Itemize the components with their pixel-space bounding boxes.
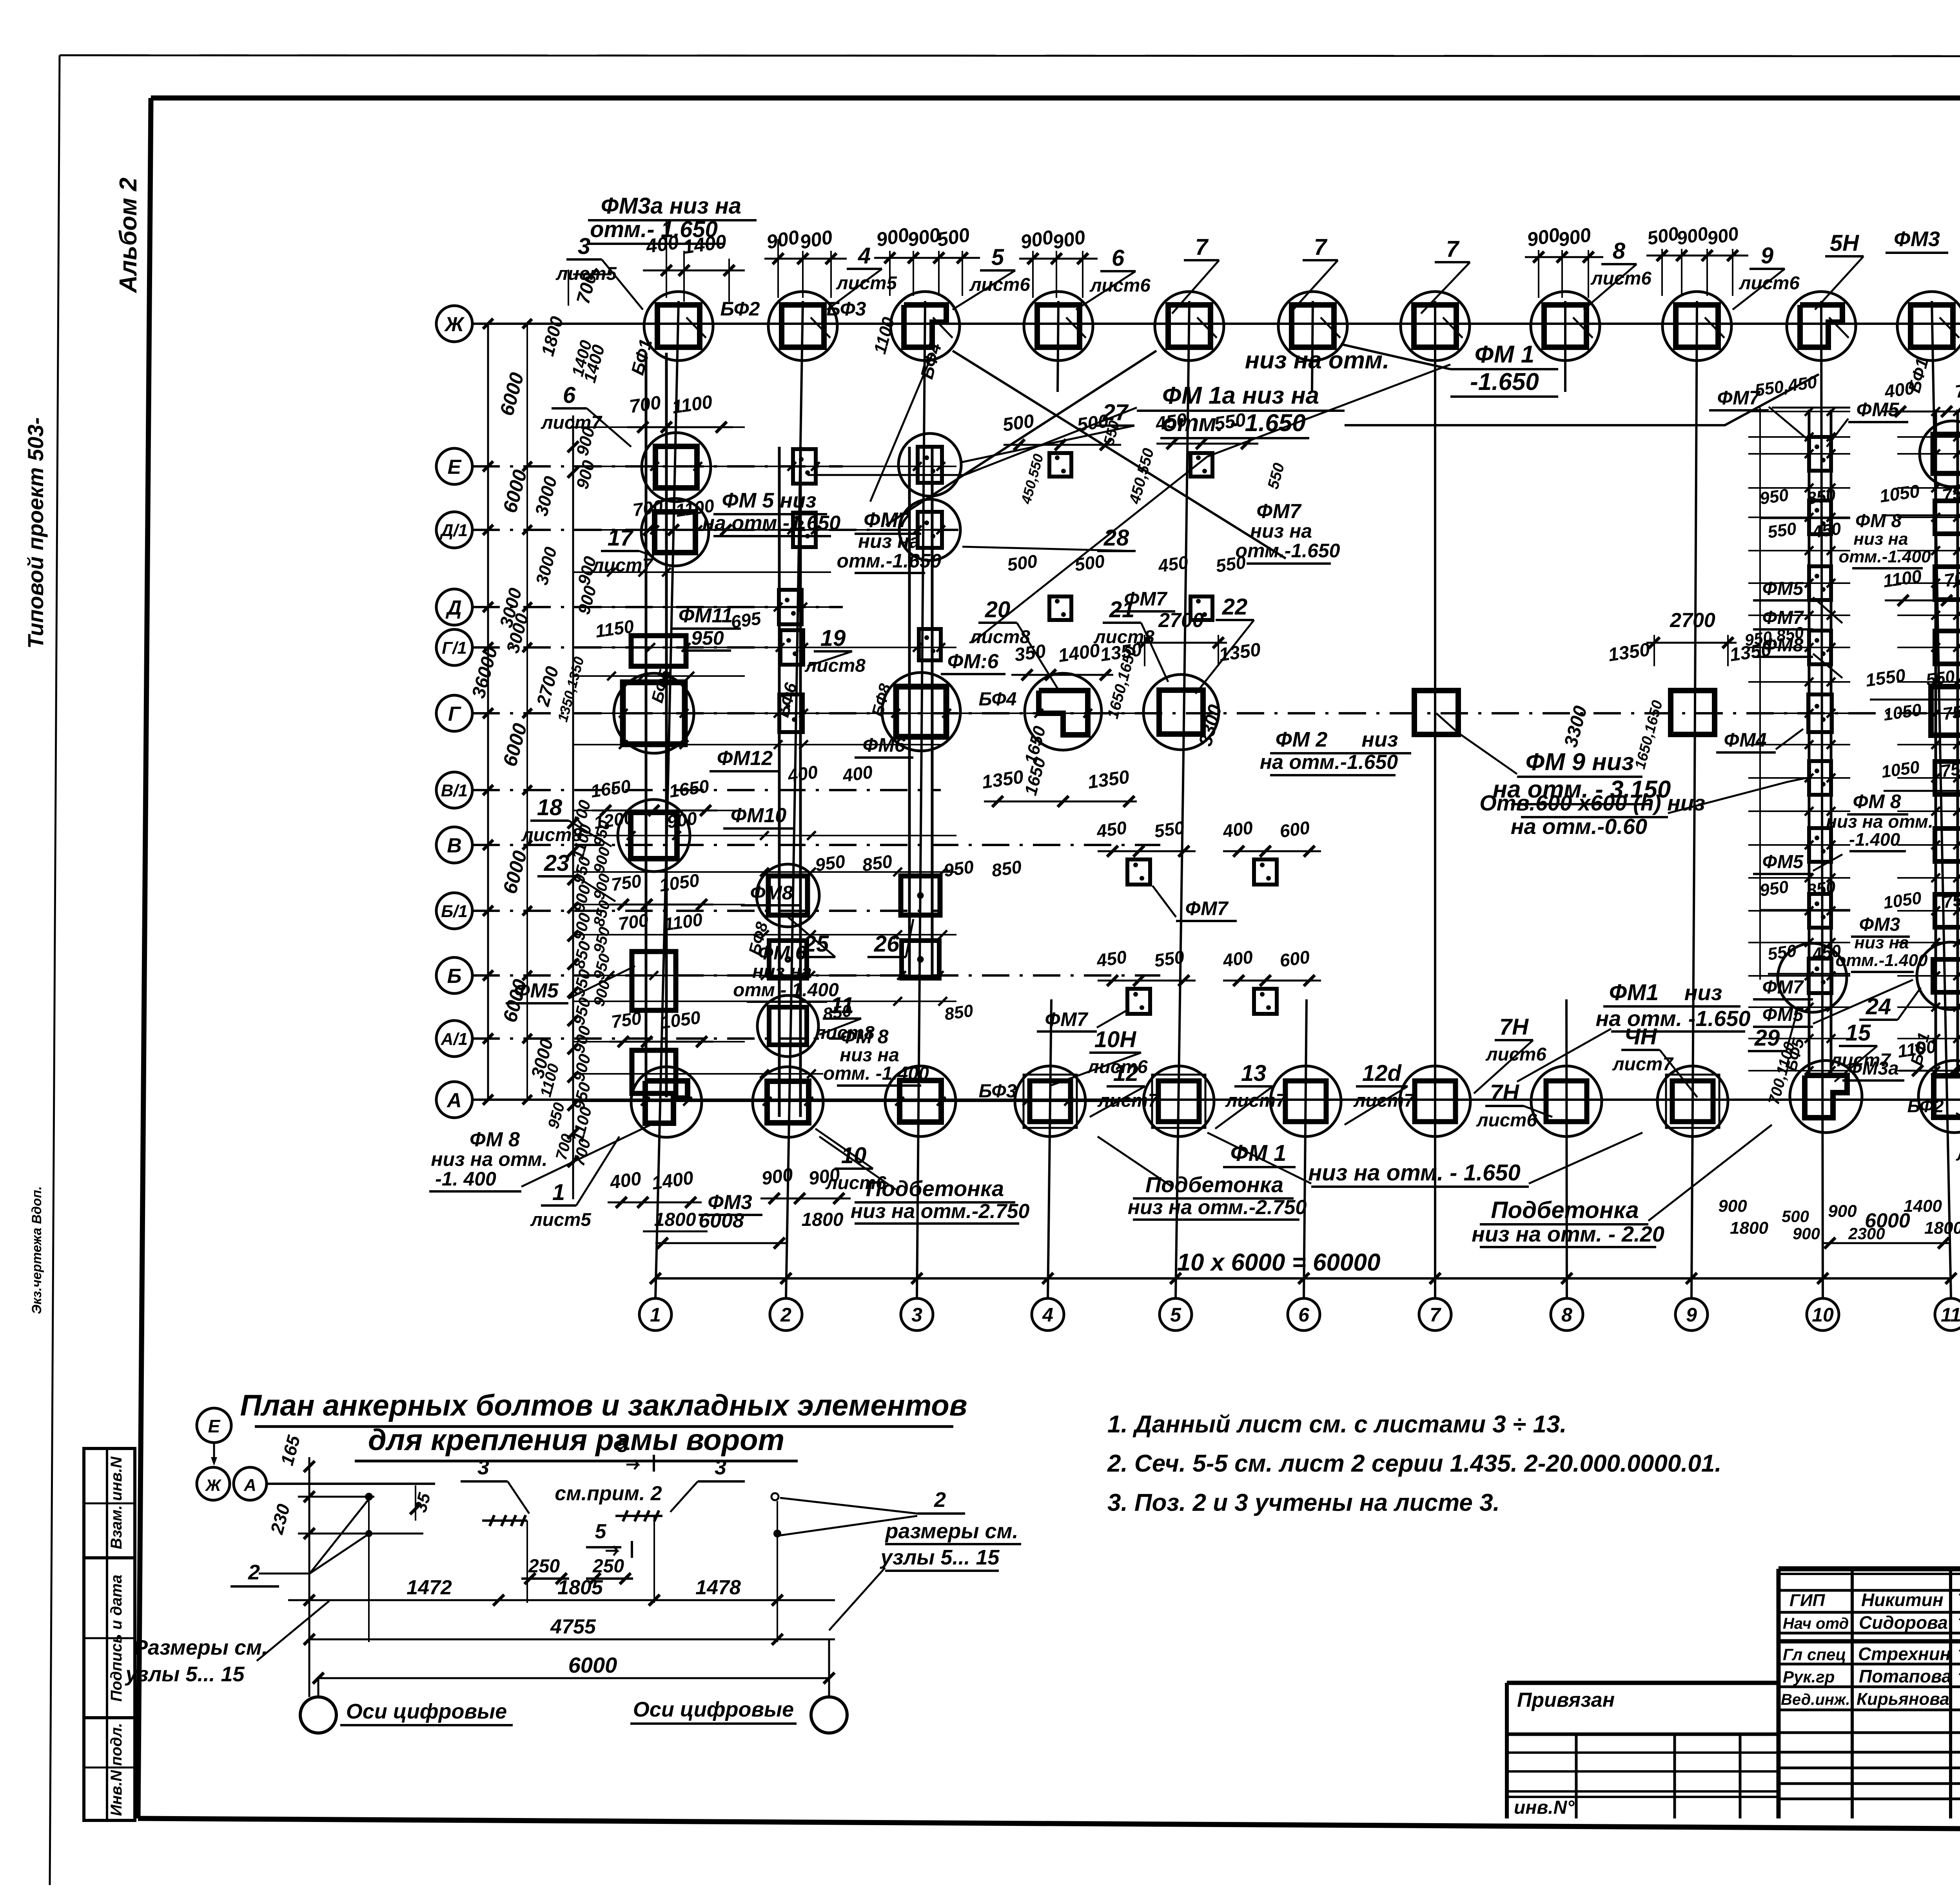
footing Г1-3 bolts: [919, 629, 941, 660]
axis column 8: [1551, 301, 1583, 1331]
svg-text:Альбом 2: Альбом 2: [115, 178, 142, 294]
footing Д1-3: [899, 499, 960, 560]
label ФМ12: [710, 747, 780, 771]
svg-text:Рук.гр: Рук.гр: [1783, 1668, 1835, 1686]
svg-text:узлы 5... 15: узлы 5... 15: [879, 1546, 1000, 1569]
svg-text:3. Поз. 2 и 3 учтены на лис: 3. Поз. 2 и 3 учтены на листе 3.: [1107, 1489, 1500, 1516]
svg-text:инв.N°: инв.N°: [1514, 1797, 1575, 1818]
svg-text:БФ2: БФ2: [720, 298, 760, 320]
left margin lower nums: [537, 1062, 576, 1162]
detail sec 5 top: [606, 1434, 654, 1472]
stamp text Взам инв №: [108, 1456, 125, 1549]
dim 1650 1650 rot2: [1021, 724, 1050, 798]
svg-text:Потапова: Потапова: [1859, 1666, 1952, 1686]
footing c11 24: [1917, 942, 1960, 1010]
footing mid-5 bolts: [1127, 859, 1150, 885]
svg-text:1: 1: [650, 1304, 661, 1326]
flag 2 лист5: [1956, 1113, 1960, 1165]
svg-text:550: 550: [1153, 817, 1186, 841]
svg-text:ФМ3: ФМ3: [1894, 227, 1940, 251]
leader top col 6: [1321, 317, 1340, 338]
svg-text:4: 4: [1042, 1304, 1053, 1326]
detail dim 6000: [313, 1653, 835, 1684]
svg-text:низ на отм.: низ на отм.: [431, 1148, 547, 1170]
dim 16 лист7: [541, 383, 631, 447]
footing Г-1: [614, 673, 694, 753]
svg-text:1472: 1472: [407, 1576, 452, 1599]
dim 1050 750 r2: [1882, 700, 1960, 724]
dim 750 1050 В: [610, 870, 713, 910]
label 7Н лист6 a: [1474, 1014, 1546, 1093]
dim 3300 rot mid: [1195, 702, 1226, 748]
svg-text:см.прим. 2: см.прим. 2: [555, 1482, 662, 1505]
leader top col 8: [1573, 317, 1593, 338]
flag 27: [960, 400, 1134, 462]
svg-text:450: 450: [1095, 946, 1128, 971]
svg-text:Подпись и дата: Подпись и дата: [108, 1575, 125, 1702]
dim 750 1050 Б2: [610, 1007, 713, 1047]
svg-text:9: 9: [1761, 243, 1773, 268]
label ФМ2 низ: [1260, 728, 1411, 775]
dim 2700 right: [1646, 609, 1737, 666]
footing А-3: [885, 1066, 956, 1137]
axis column 9: [1675, 301, 1708, 1331]
footing c11 y2156: [1935, 828, 1960, 861]
svg-text:700: 700: [632, 496, 664, 520]
detail flag 3 a: [461, 1456, 529, 1514]
label ФМ1а низ на: [1137, 382, 1345, 411]
svg-text:1805: 1805: [557, 1576, 603, 1599]
label ФМ3 низ r: [1836, 914, 1928, 972]
flag 9 лист6: [1733, 243, 1800, 310]
svg-text:лист8: лист8: [804, 655, 866, 676]
right cluster dim ladder: [1748, 407, 1960, 1075]
detail verticals: [369, 1497, 777, 1642]
svg-text:Подбетонка: Подбетонка: [1491, 1197, 1639, 1223]
flag 29: [1748, 1006, 1798, 1051]
dim 3300 rot right: [1561, 703, 1592, 749]
dim 700 1100 rot bl: [1765, 1040, 1798, 1107]
svg-text:7Н: 7Н: [1490, 1080, 1519, 1106]
label БФ4 rot col3: [916, 341, 945, 381]
label БФ1 rot col1: [627, 337, 656, 377]
note 2: [1107, 1450, 1722, 1477]
dim bott right nums: [1718, 1196, 1960, 1243]
svg-text:ФМ:6: ФМ:6: [947, 650, 999, 673]
svg-text:ФМ7: ФМ7: [1717, 387, 1760, 409]
left stamp boxes: [84, 1448, 135, 1820]
footing А col 5: [1143, 1066, 1214, 1137]
svg-text:1478: 1478: [695, 1576, 741, 1599]
svg-text:ФМ7: ФМ7: [1256, 500, 1302, 523]
flag 10Н лист6: [1051, 1027, 1148, 1086]
label БФ2 r: [1907, 1096, 1944, 1116]
footing c10 y1488 bolts: [1809, 566, 1831, 600]
svg-text:ФМ1: ФМ1: [1609, 980, 1659, 1005]
svg-text:низ на: низ на: [1250, 520, 1312, 542]
dim 1050 750 r4: [1882, 888, 1960, 912]
svg-text:6: 6: [1112, 245, 1125, 271]
dim 700 1100 Б: [617, 909, 704, 934]
footing mid-8 bolts: [1254, 989, 1277, 1014]
label БФ1 rot r2: [1907, 1030, 1933, 1067]
left margin 2700: [532, 655, 587, 723]
diagonal leader X a: [953, 351, 1286, 558]
leader ФМ1 низ: [1517, 1029, 1611, 1082]
left cluster beam rails: [573, 353, 932, 1199]
svg-text:ФМ7: ФМ7: [864, 508, 911, 532]
svg-text:7: 7: [1446, 236, 1460, 262]
axis column 5: [1160, 301, 1192, 1331]
svg-text:Е: Е: [208, 1416, 221, 1436]
footing Г1-2 bolts: [780, 630, 803, 665]
svg-text:низ на отм.-2.750: низ на отм.-2.750: [1128, 1196, 1307, 1219]
svg-text:950: 950: [1759, 485, 1790, 508]
svg-text:БФ4: БФ4: [979, 689, 1017, 710]
dim 950 850 r2: [1744, 623, 1805, 650]
label ФМ8 низ corner: [429, 1128, 548, 1191]
axis row Г: [436, 695, 1960, 731]
footing Е-3: [898, 433, 961, 496]
svg-text:Е: Е: [448, 456, 462, 479]
dim 1100 700 bott: [1896, 1036, 1960, 1076]
dim 1650 1650 rotL: [1104, 645, 1140, 721]
label ФМ5 r2: [1753, 578, 1842, 623]
left margin chain line: [483, 319, 493, 1105]
dim 900 900 col4: [1019, 226, 1098, 298]
svg-text:3: 3: [477, 1456, 489, 1479]
svg-text:лист5: лист5: [1956, 1144, 1960, 1165]
axis column 1: [639, 301, 679, 1331]
dim 1800 bott a: [643, 1209, 708, 1231]
svg-text:ФМ3: ФМ3: [1859, 914, 1900, 935]
flag 28: [962, 525, 1136, 551]
left vertical dim chain 2: [590, 819, 614, 1008]
axis row Д: [436, 589, 843, 625]
label ФМ5 r5: [1753, 980, 1913, 1027]
axis row Ж: [436, 306, 1960, 342]
detail dim 165: [276, 1433, 304, 1468]
detail plan title: [240, 1389, 967, 1461]
svg-text:1800: 1800: [802, 1209, 844, 1230]
svg-text:А: А: [446, 1089, 462, 1112]
svg-text:5: 5: [595, 1520, 607, 1543]
leader ФМ1 bottom: [1207, 1133, 1642, 1184]
svg-text:ФМ 1а низ на: ФМ 1а низ на: [1162, 382, 1319, 409]
svg-text:-1.400: -1.400: [1849, 829, 1900, 850]
label ФМ5 низ: [702, 489, 841, 536]
label ФМ10: [723, 804, 794, 828]
dim 450 550 midtop: [1154, 410, 1258, 449]
label ФМ3 bott: [699, 1191, 762, 1215]
leader подбетонка a: [819, 1137, 896, 1189]
svg-text:6: 6: [563, 383, 576, 408]
flag 23: [537, 850, 615, 901]
leader top col 10: [1829, 317, 1849, 338]
leader top col 3: [933, 317, 953, 338]
footing mid-6 bolts: [1254, 859, 1277, 885]
footing mid-3 bolts: [1049, 596, 1071, 620]
footing А-1: [631, 1067, 702, 1137]
svg-text:22: 22: [1222, 594, 1248, 620]
svg-text:БФ3: БФ3: [827, 298, 866, 320]
svg-text:7Н: 7Н: [1499, 1014, 1529, 1040]
dim 1050 750 r3: [1880, 757, 1960, 791]
leader top col 9: [1705, 317, 1724, 338]
footing Г-5: [1143, 674, 1219, 750]
detail dim 250b: [586, 1556, 633, 1584]
label ФМ3а r: [1842, 1058, 1904, 1080]
svg-text:550: 550: [1153, 946, 1186, 971]
svg-text:3: 3: [715, 1456, 726, 1479]
svg-text:250: 250: [528, 1556, 560, 1577]
svg-text:950: 950: [1759, 877, 1790, 900]
dim 450 550 rotЕ: [1126, 446, 1288, 506]
dim 1350 1350 G: [980, 767, 1137, 807]
label ФМ1 -1.650: [1450, 341, 1558, 397]
label ФМ8 В: [741, 882, 802, 905]
leader ФМ1а long: [808, 408, 1137, 475]
label подбетонка b: [1128, 1172, 1307, 1220]
svg-text:Г/1: Г/1: [442, 638, 467, 658]
leader top col 7: [1443, 317, 1463, 338]
label ФМ3 top: [1886, 227, 1948, 253]
dim 950 850 r3: [1759, 877, 1850, 910]
footing Б1-2: [757, 864, 819, 927]
svg-text:11: 11: [1941, 1304, 1960, 1326]
svg-text:450: 450: [1811, 941, 1842, 964]
leader ФМ9: [1436, 713, 1517, 774]
svg-text:низ: низ: [1361, 728, 1398, 751]
detail см прим 2: [555, 1482, 662, 1505]
flag 10 лист6: [815, 1129, 886, 1193]
footing top row col 5: [1155, 292, 1224, 361]
svg-text:2300: 2300: [1848, 1224, 1885, 1243]
dim 900 900 rot Д: [574, 554, 600, 616]
label 12a лист7: [1345, 1060, 1415, 1125]
detail leader 2 right: [771, 1488, 965, 1537]
svg-text:Д: Д: [445, 596, 462, 619]
svg-text:2: 2: [780, 1304, 791, 1326]
leader top col3 to ФМ7: [870, 353, 933, 502]
footing c10 Г: [1808, 694, 1832, 732]
dim 1650 1650 rot right: [1632, 699, 1666, 771]
label ФМ5 left: [506, 979, 568, 1003]
footing Е-1: [642, 433, 711, 502]
svg-text:ГИП: ГИП: [1789, 1591, 1826, 1610]
footing c11 y1488: [1935, 567, 1960, 600]
detail dim 4755: [304, 1615, 835, 1645]
svg-text:900: 900: [1793, 1224, 1820, 1243]
svg-text:низ на отм. - 2.20: низ на отм. - 2.20: [1472, 1222, 1664, 1246]
stamp text Инв № подл: [108, 1723, 125, 1816]
footing Б-3: [902, 941, 939, 978]
left chain line: [568, 807, 579, 1187]
svg-text:Стрехнин: Стрехнин: [1858, 1644, 1951, 1664]
flag 7 b: [1290, 234, 1338, 314]
label 13 лист7: [1215, 1060, 1287, 1129]
footing А col 7: [1400, 1066, 1470, 1137]
dim 850 850 Б: [822, 1001, 975, 1024]
svg-text:ФМ 8: ФМ 8: [840, 1026, 889, 1048]
axis row Б: [436, 957, 1160, 993]
footing c11 y1320: [1935, 501, 1960, 534]
dim 550 450 r1: [1754, 372, 1850, 408]
dim 400 1400 bott: [608, 1167, 702, 1208]
label Отв 600 600 низ: [1479, 790, 1705, 839]
dim 2700 mid: [1137, 609, 1227, 666]
axis row В/1: [436, 772, 941, 808]
detail dim line 1472/1805/1478: [288, 1576, 835, 1606]
svg-text:-1. 400: -1. 400: [435, 1168, 496, 1190]
leader top col 1: [686, 317, 706, 338]
svg-text:Нач отд: Нач отд: [1783, 1615, 1849, 1632]
label отм -1.650 b: [1160, 410, 1309, 438]
svg-text:на отм.-0.60: на отм.-0.60: [1511, 814, 1647, 839]
footing Г-3: [882, 673, 960, 751]
footing top row col 7: [1401, 292, 1470, 361]
label ФМ5 r3: [1753, 852, 1842, 874]
dim 400 1400 top col1: [643, 219, 745, 302]
footing top row col 11: [1897, 292, 1960, 361]
dim 1200 900: [592, 807, 698, 833]
svg-text:9: 9: [1686, 1304, 1697, 1326]
footing А1-0: [632, 1050, 676, 1093]
svg-text:БФ2: БФ2: [1907, 1096, 1944, 1116]
footing mid-1 bolts: [1049, 453, 1071, 477]
dim 400 600 mid4: [1221, 946, 1321, 986]
label ФМ 1 bottom: [1223, 1140, 1296, 1167]
footing mid-4 bolts: [1191, 596, 1212, 620]
footing top row col 1: [644, 292, 713, 361]
svg-text:Никитин: Никитин: [1861, 1590, 1944, 1610]
label БФ8 rot2: [745, 920, 771, 957]
svg-text:Ж: Ж: [444, 313, 465, 336]
flag 18 лист8: [521, 795, 612, 847]
svg-text:695: 695: [730, 608, 763, 632]
dim 450 550 mid2: [1156, 552, 1247, 576]
svg-text:550: 550: [1766, 941, 1798, 964]
svg-text:Оси цифровые: Оси цифровые: [633, 1698, 794, 1721]
footing top row col 6: [1278, 292, 1347, 361]
svg-text:низ: низ: [1684, 980, 1722, 1005]
svg-text:6000: 6000: [568, 1653, 617, 1677]
left margin chain line2: [523, 319, 532, 1104]
dim 1400 700 c11top: [1882, 377, 1960, 417]
svg-text:ФМ 8: ФМ 8: [1855, 511, 1902, 531]
flag 25: [788, 917, 835, 957]
svg-text:низ на отм.: низ на отм.: [1826, 811, 1933, 832]
svg-text:500: 500: [1782, 1207, 1809, 1225]
label подбетонка c: [1472, 1197, 1664, 1247]
svg-text:400: 400: [1221, 817, 1254, 841]
svg-text:2700: 2700: [1670, 609, 1715, 632]
svg-text:750: 750: [610, 870, 643, 895]
footing Е-2 bolts: [793, 449, 816, 484]
svg-text:ФМ 2: ФМ 2: [1276, 728, 1328, 751]
dim 1650 1650 В1: [589, 776, 717, 816]
dim 1050 750 r1: [1878, 480, 1960, 515]
footing c10 y1985 bolts: [1809, 761, 1831, 795]
svg-text:600: 600: [1278, 946, 1311, 971]
svg-text:для крепления рамы ворот: для крепления рамы ворот: [368, 1423, 784, 1457]
detail axis line2: [309, 1457, 310, 1697]
dim 6000 bottom right: [1823, 1209, 1951, 1249]
svg-text:450: 450: [1811, 519, 1842, 542]
detail dim 230: [266, 1502, 294, 1537]
detail leader 2 left: [230, 1499, 369, 1586]
footing mid-7 bolts: [1127, 989, 1150, 1014]
label 12 лист7: [1090, 1060, 1159, 1117]
detail flag 3 b: [670, 1456, 745, 1512]
footing c11 Г big: [1931, 687, 1960, 735]
svg-text:400: 400: [841, 761, 874, 786]
dim 950 850 B1b: [942, 856, 1023, 881]
svg-text:550: 550: [1766, 519, 1798, 542]
label подбетонка a: [851, 1176, 1030, 1224]
dim 500 900 900 col9: [1646, 223, 1748, 296]
dim 550 450 r2: [1766, 519, 1842, 542]
svg-text:размеры см.: размеры см.: [885, 1519, 1018, 1543]
label ФМ8 низ на А1: [823, 1026, 929, 1086]
svg-text:Типовой проект 503-: Типовой проект 503-: [23, 417, 48, 649]
svg-text:ФМ 1: ФМ 1: [1230, 1140, 1287, 1166]
dim 500 500 midtop: [1001, 411, 1121, 450]
svg-text:на отм.-1.650: на отм.-1.650: [702, 512, 841, 535]
svg-text:ФМ7: ФМ7: [1185, 897, 1229, 919]
svg-text:18: 18: [537, 795, 563, 820]
axis column 10: [1807, 301, 1839, 1331]
leader ФМ5 left: [568, 966, 635, 999]
svg-text:550: 550: [1213, 410, 1247, 435]
svg-text:24: 24: [1866, 994, 1891, 1019]
svg-text:ФМ12: ФМ12: [717, 747, 773, 770]
label ФМ6 низ на отм: [733, 942, 839, 1002]
svg-text:850: 850: [990, 856, 1023, 881]
label 4Н лист7: [1612, 1024, 1697, 1097]
label ФМ7 низ на: [837, 508, 942, 573]
svg-text:ФМ7: ФМ7: [1762, 977, 1804, 998]
svg-text:7: 7: [1195, 234, 1209, 260]
svg-text:350: 350: [1013, 641, 1047, 666]
svg-text:12: 12: [1113, 1060, 1139, 1086]
dim 500 500 mid2: [1006, 551, 1106, 575]
footing c11 y2324: [1935, 894, 1960, 927]
svg-text:12d: 12d: [1362, 1060, 1402, 1086]
dim 1400 rot left: [580, 343, 609, 385]
label 7Н лист6 b: [1476, 1080, 1552, 1131]
flag 3 лист5: [555, 234, 643, 310]
label ФМ7 r1: [1709, 387, 1807, 439]
footing c11 y1985: [1935, 761, 1960, 794]
flag 6 лист6: [1076, 245, 1151, 310]
label низ на отм bottom: [1308, 1160, 1529, 1187]
footing c11 bottom: [1918, 1060, 1960, 1133]
svg-text:Д/1: Д/1: [439, 521, 468, 540]
dim 1100 700 r2: [1882, 566, 1960, 606]
footing c10 29: [1778, 943, 1847, 1012]
footing В-1: [618, 799, 690, 872]
footing c10 y1158 bolts: [1809, 437, 1831, 471]
svg-text:Инв.N подл.: Инв.N подл.: [108, 1723, 125, 1816]
detail оси цифровые left: [340, 1700, 513, 1725]
axis column 2: [770, 301, 803, 1331]
footing col9 Г: [1671, 691, 1715, 734]
dim 450 550 mid3: [1095, 817, 1196, 857]
svg-text:лист5: лист5: [836, 273, 897, 294]
axis row А: [436, 1082, 1960, 1118]
svg-text:отм.-1.650: отм.-1.650: [1236, 540, 1340, 562]
